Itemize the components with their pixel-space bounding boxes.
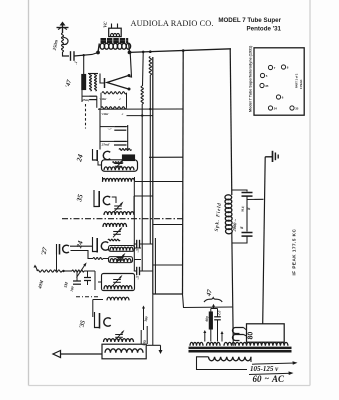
coil T1 winding <box>100 43 130 49</box>
label 5a <box>134 248 140 253</box>
IF1 secondary coil <box>103 177 135 182</box>
AF coil <box>104 286 132 301</box>
resistor 250m <box>62 33 69 52</box>
label fpeak rotated <box>299 79 303 89</box>
resistor 4n squiggle <box>113 162 124 164</box>
label 2.0 <box>217 310 222 316</box>
wire top rail <box>130 49 232 53</box>
wire stub y181 <box>135 181 183 183</box>
resistor 10m <box>101 107 127 109</box>
label 300 <box>143 316 149 323</box>
capacitor 8a <box>242 193 253 197</box>
model text line 2 <box>247 26 282 33</box>
IF1 primary coil <box>104 167 134 170</box>
IF1 can box <box>102 160 138 172</box>
wire fork down <box>100 74 105 84</box>
label spk field <box>215 202 223 231</box>
tube circle 7 <box>290 106 299 111</box>
tube layout box <box>254 48 304 115</box>
label 100 <box>70 286 75 292</box>
label 27 <box>40 246 49 257</box>
wire 40m junction <box>62 270 95 272</box>
wire 27 cathode <box>56 255 58 272</box>
label 40m <box>37 279 45 291</box>
wire if1 left <box>98 161 102 165</box>
wire stub y265 <box>153 264 183 266</box>
capacitor .25mf <box>114 141 127 145</box>
label 47 brace <box>204 288 222 302</box>
svg-text:AUDIOLA RADIO CO.: AUDIOLA RADIO CO. <box>131 19 214 28</box>
svg-text:~: ~ <box>265 374 270 383</box>
wire cap mid <box>247 196 264 232</box>
output transformer box <box>102 344 146 359</box>
label part rotated <box>295 73 299 88</box>
power transformer winding A <box>190 342 203 345</box>
wire primary leads <box>197 357 252 370</box>
svg-text:Pentode '31: Pentode '31 <box>247 26 282 33</box>
label 10m <box>101 112 124 116</box>
label 24 stage4 <box>75 240 85 250</box>
label .1 b <box>108 127 112 131</box>
rectifier pins <box>233 328 247 341</box>
label 60 AC <box>249 371 294 384</box>
resistor 400 <box>209 312 212 329</box>
svg-text:35: 35 <box>265 84 269 88</box>
svg-text:MODEL 7 Tube Super: MODEL 7 Tube Super <box>218 17 281 24</box>
label 2000 <box>232 218 238 232</box>
capacitor 8b <box>242 233 253 237</box>
wire ground vertical <box>263 157 266 324</box>
wire spk down <box>232 233 233 340</box>
wire cap node top <box>232 190 247 192</box>
power primary coil <box>209 357 251 361</box>
arrow 40m <box>34 265 38 272</box>
label model rotated <box>249 45 253 112</box>
AF coil box <box>102 274 135 291</box>
svg-text:80: 80 <box>248 332 255 340</box>
wire 400 leads <box>210 309 212 342</box>
svg-text:105-125 v: 105-125 v <box>250 365 279 373</box>
resistor plate zigzag <box>119 149 132 151</box>
label 8b <box>239 226 244 230</box>
label if peak <box>291 229 296 276</box>
tube V1 grid fork <box>105 74 131 91</box>
svg-text:IF PEAK 177.5 KC: IF PEAK 177.5 KC <box>291 229 296 276</box>
tap arrows <box>203 330 223 342</box>
resistor 40m <box>37 270 62 272</box>
antenna <box>57 22 69 34</box>
svg-text:AC: AC <box>271 374 285 384</box>
rectifier 80 box <box>247 324 285 342</box>
capacitor .1 c <box>0 0 1 1</box>
tube V6 <box>95 312 111 329</box>
svg-text:'10m': '10m' <box>101 112 109 116</box>
label .25mf <box>101 142 110 146</box>
resistor 5m <box>62 262 87 277</box>
resistor 300 arrow <box>142 306 145 331</box>
svg-text:Model 7 Tube Superheterodyne (: Model 7 Tube Superheterodyne (1931) <box>249 45 253 112</box>
label 50ohm <box>142 339 148 346</box>
wire stub y109 <box>98 108 183 110</box>
resistor R2 vertical <box>141 86 143 271</box>
label mf <box>240 205 245 213</box>
capacitor C5a <box>134 240 153 248</box>
resistor v4 zig <box>108 239 120 241</box>
AF trimmer <box>113 275 122 285</box>
capacitor 25mf <box>89 96 97 99</box>
svg-text:60: 60 <box>253 374 263 384</box>
wire right verticals join <box>232 340 234 346</box>
wire C1 to coil <box>74 53 98 75</box>
wire v6 drop <box>93 300 103 318</box>
coil T1 core <box>101 39 129 42</box>
svg-text:25mf': 25mf' <box>101 142 110 146</box>
IF2 trimmer <box>114 201 123 211</box>
osc coil row 2 <box>109 257 133 263</box>
vc coil box <box>109 24 122 37</box>
wire caps stack <box>100 108 128 150</box>
label 5m <box>63 281 69 288</box>
wire 183 bottom <box>183 294 233 308</box>
label 8a <box>246 207 251 211</box>
label VC <box>104 21 110 29</box>
output transformer coil <box>105 349 143 353</box>
tube circle 3 <box>260 73 267 78</box>
wire rail drop x143 <box>142 53 145 86</box>
capacitor C5b <box>134 267 153 275</box>
svg-text:'50m': '50m' <box>99 97 107 101</box>
wire cap bottom <box>232 236 247 243</box>
label 24 stage2 <box>75 153 85 163</box>
IF3 trimmer <box>113 227 122 237</box>
shield dash-dot line <box>62 218 183 220</box>
out coil upper <box>104 339 134 342</box>
junction dots coil <box>96 51 131 55</box>
wire cathode net <box>82 89 127 108</box>
wire stub y157 <box>149 156 183 158</box>
model text line 1 <box>218 17 281 24</box>
wire osc <box>134 182 141 271</box>
wire bus mid vertical <box>182 51 185 294</box>
wire out drops <box>141 294 153 345</box>
label 35 stage3 <box>75 193 85 203</box>
capacitor .1 <box>71 51 75 61</box>
ground symbol <box>265 151 278 162</box>
capacitor 2.0 <box>211 304 221 342</box>
wire stub y224 <box>153 224 183 226</box>
wire antenna to C1 <box>63 52 70 56</box>
tube circle 1 <box>268 65 275 70</box>
label 50m <box>99 97 121 101</box>
label 35 out <box>78 319 87 330</box>
tube V4 <box>93 237 109 253</box>
label 400 <box>204 316 209 323</box>
title text <box>131 19 214 28</box>
power transformer winding C <box>224 342 288 345</box>
osc trimmer <box>116 253 125 263</box>
svg-text:.1: .1 <box>121 112 124 116</box>
volume control dual zigzag <box>88 74 98 92</box>
wire plate to fork <box>129 53 132 78</box>
tube circle 4 <box>260 83 269 88</box>
resistor block dark <box>123 155 135 161</box>
svg-text:'.1': '.1' <box>108 127 112 131</box>
tube circle 5 <box>276 95 283 100</box>
IF2 primary coil <box>104 212 134 215</box>
wire stub y196 <box>135 195 153 197</box>
phono arrow <box>53 351 102 358</box>
label 250m <box>51 39 58 52</box>
resistor R_rail vertical <box>149 57 151 245</box>
wire stub y118 <box>127 115 153 117</box>
resistor 50m <box>102 92 127 94</box>
tube V5 27 <box>57 244 69 255</box>
tube V2 <box>93 149 111 161</box>
svg-text:F PEAK: F PEAK <box>299 79 303 89</box>
spk field coil <box>225 195 232 234</box>
osc coil row 1 <box>109 246 135 252</box>
shield dash vertical <box>85 104 87 129</box>
IF3 coil top <box>103 223 127 227</box>
tube V3 <box>94 190 110 207</box>
IF1 trimmer <box>115 159 124 169</box>
out coil trimmer <box>115 330 124 340</box>
power transformer core <box>189 348 292 351</box>
svg-text:2: 2 <box>119 97 121 101</box>
wire 27 to stage <box>70 246 109 259</box>
capacitor .1 b <box>114 127 126 131</box>
svg-text:M.F.: M.F. <box>240 205 245 213</box>
power transformer winding B <box>207 342 221 345</box>
capacitor left pair <box>73 271 81 284</box>
wire bus left vertical <box>152 57 154 294</box>
tube circle 6 <box>268 106 277 111</box>
label 5b <box>134 275 140 280</box>
label .1 <box>73 61 79 65</box>
label 25mf <box>81 98 90 102</box>
label 105-125 <box>250 361 298 373</box>
wire rail right vertical <box>230 49 232 195</box>
tube circle 2 <box>281 65 288 70</box>
resistor bar R3 <box>82 75 86 90</box>
wire af stage <box>76 271 102 297</box>
label 80 <box>248 332 255 340</box>
wire v3 plate <box>112 196 134 215</box>
svg-text:PART 1 of 2: PART 1 of 2 <box>295 73 299 88</box>
svg-text:24: 24 <box>274 107 278 111</box>
svg-text:35: 35 <box>295 107 299 111</box>
ground arrow mid <box>146 345 162 354</box>
coil T1 legs <box>98 44 130 53</box>
capacitor cath <box>84 271 91 285</box>
label 47 stage1 <box>64 78 73 88</box>
wire bus bottom closing <box>153 238 183 294</box>
